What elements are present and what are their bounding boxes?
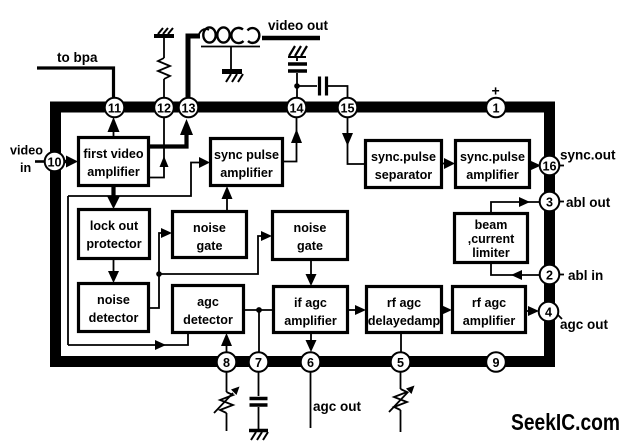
pin 2 dash xyxy=(558,274,564,276)
potentiometer VR1 (pin 8) xyxy=(214,372,240,431)
pin 3 xyxy=(540,192,560,212)
node junction (noise branch) xyxy=(156,271,162,277)
wire pin10 stub xyxy=(35,160,45,163)
wire pin 8 to agc detector xyxy=(221,333,232,352)
svg-text:detector: detector xyxy=(89,311,139,325)
svg-text:1: 1 xyxy=(492,102,499,116)
pin 8 xyxy=(217,352,237,372)
svg-text:7: 7 xyxy=(255,356,262,370)
svg-text:beam: beam xyxy=(475,218,508,232)
svg-text:amplifier: amplifier xyxy=(284,314,337,328)
svg-text:video: video xyxy=(10,144,43,158)
pin 15 xyxy=(338,98,358,118)
wire noise gate 2 to if agc amplifier xyxy=(306,260,317,286)
wire rf agc delayedamp to rf agc amplifier xyxy=(441,305,452,315)
svg-text:amplifier: amplifier xyxy=(466,168,519,182)
box noise detector xyxy=(79,284,149,332)
box first video amplifier xyxy=(79,138,149,186)
svg-text:noise: noise xyxy=(193,221,226,235)
svg-text:SeekIC.com: SeekIC.com xyxy=(511,409,620,435)
svg-text:,current: ,current xyxy=(468,232,515,246)
svg-text:8: 8 xyxy=(223,356,230,370)
wire pin 2 to beam current limiter xyxy=(491,263,540,281)
pin 5 xyxy=(391,352,411,372)
box sync pulse amplifier (right) xyxy=(456,141,530,188)
wire feedback left vertical xyxy=(67,196,69,345)
svg-text:5: 5 xyxy=(397,356,404,370)
pin 9 xyxy=(486,352,506,372)
wire pin 7 to junction xyxy=(258,310,260,352)
wire separator to sync pulse amplifier (right) xyxy=(442,158,455,169)
wire first video amplifier to lock out protector (thick) xyxy=(107,186,120,209)
svg-text:to bpa: to bpa xyxy=(57,50,98,65)
svg-text:gate: gate xyxy=(297,239,323,253)
svg-text:agc out: agc out xyxy=(560,317,609,332)
wire beam current limiter to pin 3 xyxy=(491,197,540,214)
box noise gate 1 xyxy=(173,212,247,258)
capacitor C2 (between pin14 and pin15) xyxy=(297,77,348,98)
svg-text:15: 15 xyxy=(340,102,354,116)
ground (video out, hatched) xyxy=(288,46,307,57)
svg-text:13: 13 xyxy=(181,102,195,116)
box sync pulse amplifier (left) xyxy=(211,139,283,186)
wire to bpa line xyxy=(37,68,114,97)
svg-text:9: 9 xyxy=(492,356,499,370)
wire agc detector to if agc amplifier xyxy=(244,309,273,311)
svg-text:rf agc: rf agc xyxy=(472,296,506,310)
box if agc amplifier xyxy=(274,287,348,333)
svg-text:gate: gate xyxy=(197,239,223,253)
wire rf agc amplifier to pin 4 xyxy=(526,306,539,316)
wire if agc amplifier to rf agc delayedamp xyxy=(348,305,366,315)
svg-text:protector: protector xyxy=(86,237,141,251)
svg-text:12: 12 xyxy=(157,102,171,116)
svg-text:abl out: abl out xyxy=(566,195,611,210)
node junction (pin 7 tap) xyxy=(256,307,262,313)
svg-text:6: 6 xyxy=(307,356,314,370)
svg-text:limiter: limiter xyxy=(472,246,510,260)
pin 12 xyxy=(154,98,174,118)
wire sync pulse amplifier to pin 14 xyxy=(283,117,302,162)
svg-text:detector: detector xyxy=(183,313,233,327)
svg-text:if agc: if agc xyxy=(294,296,327,310)
pin 2 xyxy=(540,265,560,285)
svg-text:separator: separator xyxy=(375,168,432,182)
wire feedback to agc detector xyxy=(68,333,188,350)
box beam current limiter xyxy=(455,214,528,263)
wire lock out protector to noise detector xyxy=(108,259,119,283)
svg-text:first video: first video xyxy=(83,147,143,161)
svg-text:sync.pulse: sync.pulse xyxy=(371,150,436,164)
svg-text:14: 14 xyxy=(289,102,303,116)
box rf agc delayedamp xyxy=(367,287,442,333)
ground (below coil) xyxy=(222,72,243,83)
svg-text:agc: agc xyxy=(197,295,219,309)
pin 10 xyxy=(45,152,65,172)
ground (above R1) xyxy=(154,28,174,36)
wire pin10 to first video amplifier xyxy=(64,156,78,168)
box lock out protector xyxy=(79,210,150,259)
wire first video amplifier to pin 12 xyxy=(149,117,169,178)
svg-text:amplifier: amplifier xyxy=(463,314,516,328)
video out terminal bar xyxy=(262,36,320,41)
IC package outline xyxy=(56,107,550,362)
svg-text:3: 3 xyxy=(546,196,553,210)
pin 13 xyxy=(179,98,199,118)
wire noise branch to noise gate 2 xyxy=(159,231,272,274)
node junction (pin14 branch) xyxy=(294,83,300,89)
svg-text:amplifier: amplifier xyxy=(87,165,140,179)
pin 3 dash xyxy=(558,201,564,203)
ground (pin 7) xyxy=(249,431,268,441)
wire sync pulse amplifier to pin 16 xyxy=(530,161,541,171)
svg-text:4: 4 xyxy=(545,306,552,320)
svg-text:16: 16 xyxy=(542,160,556,174)
svg-text:delayedamp: delayedamp xyxy=(368,314,441,328)
svg-text:abl in: abl in xyxy=(568,268,603,283)
svg-text:sync.pulse: sync.pulse xyxy=(460,150,525,164)
svg-text:noise: noise xyxy=(294,221,327,235)
svg-text:+: + xyxy=(492,83,500,99)
svg-text:2: 2 xyxy=(546,269,553,283)
wire pin 13 to coil (thick) xyxy=(188,36,200,98)
pin 6 xyxy=(301,352,321,372)
wire first video amplifier to pin 13 (thick) xyxy=(149,119,193,147)
wire feedback to sync pulse amplifier xyxy=(68,157,210,196)
pin 16 xyxy=(540,156,560,176)
pin 4 stub xyxy=(556,313,562,319)
svg-text:sync pulse: sync pulse xyxy=(214,148,279,162)
svg-text:10: 10 xyxy=(47,156,61,170)
svg-text:video out: video out xyxy=(268,18,329,33)
box sync pulse separator xyxy=(366,141,442,188)
capacitor C3 (pin 7) xyxy=(250,372,268,429)
box rf agc amplifier xyxy=(453,287,526,333)
svg-text:agc out: agc out xyxy=(313,399,362,414)
label video in xyxy=(10,144,43,176)
potentiometer VR2 (pin 5) xyxy=(389,372,415,432)
wire noise gate 1 to sync pulse amplifier xyxy=(222,186,233,211)
wire pin 6 to agc out xyxy=(310,372,312,428)
box noise gate 2 xyxy=(273,212,348,260)
wire rf agc delayedamp to pin 5 xyxy=(400,333,402,352)
resistor R1 (pin 12 to ground) xyxy=(158,38,170,98)
capacitor C1 (pin14 to ground) xyxy=(288,57,307,97)
svg-text:lock out: lock out xyxy=(90,219,139,233)
pin 16 dash xyxy=(558,165,564,167)
coil core bar and tap xyxy=(201,47,260,70)
svg-text:sync.out: sync.out xyxy=(560,148,616,163)
box agc detector xyxy=(173,286,244,333)
svg-text:11: 11 xyxy=(108,102,121,116)
svg-text:in: in xyxy=(20,161,31,175)
pin 11 xyxy=(105,98,125,118)
svg-text:noise: noise xyxy=(97,293,130,307)
wire if agc amplifier to pin 6 xyxy=(306,333,317,352)
wire first video amplifier to pin 11 xyxy=(108,117,120,137)
svg-text:rf agc: rf agc xyxy=(387,296,421,310)
pin 7 xyxy=(249,352,269,372)
pin 1 xyxy=(486,98,506,118)
inductor L1 (coil) xyxy=(198,27,259,43)
svg-text:amplifier: amplifier xyxy=(220,166,273,180)
pin 4 xyxy=(539,302,559,322)
pin 14 xyxy=(287,98,307,118)
wire pin 15 to sync pulse separator xyxy=(342,117,366,164)
wire noise detector to noise gate 1 xyxy=(149,228,172,308)
